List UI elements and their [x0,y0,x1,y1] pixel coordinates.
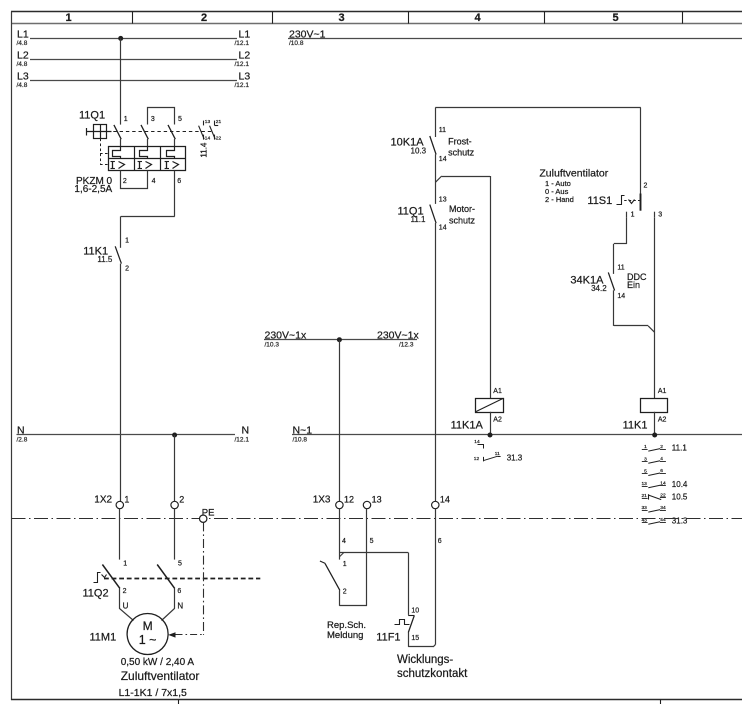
svg-text:2 - Hand: 2 - Hand [545,195,574,204]
breaker 11Q1 trip linkage dashed vertical [100,139,102,166]
wire 11K1 A2 down to N~1 [654,412,656,435]
breaker 11Q1 bridge pins 3-5 top [148,108,175,125]
svg-text:5: 5 [178,561,182,568]
relay 34K1A NO contact blade [608,272,614,290]
net L1 wire [30,38,237,40]
terminal 1X2:2 [171,501,178,508]
wire top link horizontal [435,107,641,109]
svg-text:34: 34 [660,505,666,511]
svg-text:10.3: 10.3 [411,147,427,156]
net 230V~1 wire [288,38,742,40]
net L2 wire [30,59,237,61]
svg-text:4: 4 [474,12,481,24]
svg-text:L1: L1 [17,28,29,40]
svg-text:10.4: 10.4 [672,480,688,489]
wire merge bevel to terminal 14 column [433,645,435,647]
wire terminal 1X3:13 down [366,509,368,606]
svg-text:14: 14 [439,156,447,163]
breaker 11Q1 pole 2 blade [141,125,148,139]
svg-text:1: 1 [631,212,635,219]
wire 34K1A pin 14 down [613,290,615,326]
PE dash-dot horizontal to motor frame [176,634,204,636]
svg-text:L3: L3 [17,71,29,83]
selector 11S1 operator chevron [629,200,635,204]
svg-text:11F1: 11F1 [376,631,400,643]
svg-text:11.1: 11.1 [672,444,688,453]
svg-text:2: 2 [123,588,127,595]
svg-text:22: 22 [216,135,222,141]
wire down to 11F1 pin 10 [408,553,410,615]
svg-text:A2: A2 [658,417,667,424]
svg-text:/12.1: /12.1 [235,61,250,68]
thermal contact 11F1 seat tick [408,615,414,617]
wire 11S1 pin 2 lead down [640,108,642,194]
breaker 11Q1 auxiliary contact 13-14 [203,121,205,126]
terminal PE [200,515,207,522]
svg-text:5: 5 [612,12,618,24]
column tick 1 [132,12,134,24]
svg-text:11Q1: 11Q1 [79,109,105,121]
wire 10K1A pin 14 down with branch [435,154,437,204]
svg-text:6: 6 [438,538,442,545]
breaker 11Q1 bridge pins 2-4 bottom [121,171,148,189]
svg-text:2: 2 [179,494,184,504]
wire horizontal merge toward pin3 branch [614,325,648,327]
svg-text:1: 1 [125,237,129,244]
thermal overload element pole 3 [167,147,175,159]
wire Rep.Sch. pin 2 down [339,590,341,605]
svg-text:11M1: 11M1 [90,631,117,643]
wire 230V~1x down to terminal 1X3:12 [339,340,341,502]
selector 11S1 pin 3 tick [654,212,656,218]
breaker 11Q1 actuator box [94,125,107,139]
page border header bottom line [11,23,742,25]
svg-text:230V~1x: 230V~1x [265,329,307,341]
relay coil 11K1A [476,399,504,413]
terminal 1X2:1 [116,501,123,508]
wire coil column down to 11K1A A1 [490,176,492,398]
svg-text:10.5: 10.5 [672,492,688,501]
breaker 11Q1 trip linkage dashed stub lower [100,164,109,166]
equipotential dash-dot line [12,518,742,520]
svg-text:1: 1 [343,561,347,568]
breaker 11Q1 actuator handle tick [86,128,88,136]
bottom title-block tick left [178,700,180,704]
switch 11Q2 operator chevron [102,575,107,578]
svg-text:N: N [17,424,25,436]
svg-text:4: 4 [152,178,156,185]
breaker 11Q1 trip linkage dashed stub upper [100,153,109,155]
svg-text:230V~1: 230V~1 [289,28,326,40]
svg-text:/10.3: /10.3 [265,341,280,348]
svg-text:10: 10 [411,607,419,614]
magnetic trip I> symbol pole 2 [139,162,141,169]
svg-text:1,6-2,5A: 1,6-2,5A [74,184,112,195]
breaker 11Q1 actuator cross vertical [100,125,102,139]
wire down to 11K1 contact pin 1 [120,216,122,247]
wire N down to terminal 1X2:2 [174,435,176,501]
motor 11M1 circle [127,614,168,655]
svg-text:15: 15 [411,635,419,642]
svg-text:M: M [143,619,153,633]
wire L1 down to 11Q1 pin 1 [120,38,122,124]
svg-text:2: 2 [125,266,129,273]
svg-text:L1-1K1 / 7x1,5: L1-1K1 / 7x1,5 [119,687,187,699]
svg-text:Meldung: Meldung [327,630,363,641]
svg-text:/12.1: /12.1 [235,82,250,89]
svg-text:12: 12 [474,456,480,462]
contactor coil 11K1 [641,399,668,413]
PE arrow into motor [168,632,175,637]
svg-text:Frost-: Frost- [448,136,472,146]
svg-text:/4.8: /4.8 [17,61,28,68]
svg-text:U: U [123,601,129,610]
svg-text:3: 3 [658,212,662,219]
svg-text:4: 4 [342,538,346,545]
thermal sensor symbol of 11F1 [395,620,410,625]
svg-text:11Q2: 11Q2 [83,587,109,599]
switch 11Q2 coupling dashed line [104,578,260,580]
svg-text:13: 13 [205,119,211,125]
thermal overload element pole 1 [113,147,121,159]
svg-text:/10.8: /10.8 [289,40,304,47]
svg-text:2: 2 [201,12,207,24]
svg-text:230V~1x: 230V~1x [377,329,419,341]
svg-text:L2: L2 [239,49,251,61]
column tick 2 [272,12,274,24]
svg-text:N: N [177,601,183,610]
wire 11K1A A2 down to N~1 [490,412,492,435]
selector 11S1 operator dashed link [624,200,639,202]
wire drop to 10K1A pin 11 [435,108,437,137]
wire 11Q1 aux pin 14 down to terminal 1X3:14 [435,223,437,501]
contactor 11K1 NO contact blade [115,246,121,263]
wire horizontal jog to left column [121,216,175,218]
svg-text:11: 11 [439,127,446,134]
svg-text:14: 14 [205,135,211,141]
mirror contact 11K1A changeover blade [483,457,485,462]
svg-text:14: 14 [617,293,625,300]
mirror contact 11K1A hook [478,445,484,449]
svg-text:2: 2 [343,588,347,595]
wire 11Q2 pin 2 down to motor [120,589,134,621]
net N~1 wire [292,434,742,436]
svg-text:Rep.Sch.: Rep.Sch. [327,620,366,631]
column tick 3 [408,12,410,24]
breaker 11Q1 overload block outline [109,147,186,171]
wire 11F1 pin 15 down [408,632,410,647]
wire 11S1 pin 3 down to 11K1 coil A1 [654,218,656,399]
breaker 11Q1 pole1 lower lead [120,139,122,147]
breaker 11Q1 overload block mid line [109,158,186,160]
svg-text:2: 2 [123,178,127,185]
node N junction dot [172,433,177,438]
svg-text:Motor-: Motor- [449,204,475,214]
wire terminal 1X3:14 down to 11F1 return [435,509,437,645]
breaker 11Q1 actuator cross horizontal with handle [86,131,111,133]
svg-text:L3: L3 [239,71,251,83]
svg-text:13: 13 [439,196,447,203]
svg-text:11S1: 11S1 [587,195,612,207]
svg-text:1: 1 [124,116,128,123]
svg-text:1X3: 1X3 [313,494,331,505]
breaker 11Q1 mechanical linkage dashed [107,131,213,133]
node 230V~1x junction dot [337,337,342,342]
svg-text:11K1: 11K1 [623,419,648,431]
selector 11S1 pin 1 tick [626,212,628,218]
wire terminal 1X2:2 down to 11Q2 pin 5 [174,509,176,560]
svg-text:5: 5 [370,538,374,545]
switch 11Q2 pole 1 blade [102,565,120,589]
node N~1 junction dot at 11K1 [652,433,657,438]
column tick 4 [544,12,546,24]
svg-text:/12.3: /12.3 [399,341,414,348]
svg-text:Zuluftventilator: Zuluftventilator [121,669,200,683]
switch 11Q2 manual operator glyph [94,573,101,583]
svg-text:/4.8: /4.8 [17,82,28,89]
breaker aux 11Q1 NO contact blade [430,205,436,224]
svg-text:2: 2 [644,182,648,189]
svg-text:6: 6 [177,588,181,595]
breaker 11Q1 pole2 lower lead [147,139,149,147]
svg-text:11K1A: 11K1A [451,420,484,432]
wire terminal 1X2:1 down to 11Q2 pin 1 [119,509,121,560]
svg-text:/10.8: /10.8 [293,437,308,444]
breaker 11Q1 overload block divider 1 [134,147,136,171]
wire branch horizontal to 11F1 [339,552,408,554]
breaker 11Q1 overload block divider 2 [160,147,162,171]
magnetic trip I> symbol pole 1 [112,162,114,169]
svg-text:/2.8: /2.8 [17,437,28,444]
svg-text:Zuluftventilator: Zuluftventilator [539,167,608,179]
node L1 junction dot [118,36,123,41]
terminal 1X3:12 [336,501,343,508]
page border left line [11,12,13,701]
wire bottom horizontal to terminal 14 column [408,646,433,648]
svg-text:14: 14 [439,224,447,231]
PE dash-dot drop to motor [203,522,205,635]
wire 11S1 pin 1 down [626,218,628,244]
thermal contact 11F1 blade [408,616,414,633]
breaker 11Q1 pole3 lower lead [174,139,176,147]
svg-text:N: N [242,424,250,436]
svg-text:11: 11 [617,265,624,272]
svg-text:11.4: 11.4 [200,142,209,158]
svg-text:L1: L1 [239,28,251,40]
svg-text:L2: L2 [17,49,29,61]
wire branch bevel to 11K1A coil [435,176,441,182]
svg-text:1: 1 [65,12,71,24]
svg-text:schutzkontakt: schutzkontakt [397,668,468,680]
svg-text:/12.1: /12.1 [235,437,250,444]
svg-text:Ein: Ein [627,280,640,290]
switch Rep.Sch. actuator tick [320,561,325,563]
svg-text:1 ~: 1 ~ [139,633,157,647]
net L3 wire [30,80,237,82]
wire 11Q2 pin 6 down to motor [162,589,175,621]
svg-text:13: 13 [641,481,647,487]
svg-text:1: 1 [123,561,127,568]
svg-text:/4.8: /4.8 [17,40,28,47]
svg-text:12: 12 [344,494,354,504]
net N wire [17,434,236,436]
svg-text:/12.1: /12.1 [235,40,250,47]
switch 11Q2 pole 2 blade [157,565,175,589]
svg-text:14: 14 [440,494,450,504]
svg-text:0,50 kW / 2,40 A: 0,50 kW / 2,40 A [121,657,195,668]
wire bottom link to terminal 13 wire [339,605,367,607]
svg-text:11.5: 11.5 [97,255,113,264]
svg-text:1X2: 1X2 [94,494,112,505]
breaker 11Q1 pole 3 blade [168,125,175,139]
svg-text:schutz: schutz [448,148,475,158]
net 230V~1x wire [264,339,417,341]
svg-text:A2: A2 [493,417,502,424]
svg-text:13: 13 [372,494,382,504]
svg-text:31.3: 31.3 [507,453,523,462]
svg-text:21: 21 [216,119,222,125]
selector 11S1 blade [640,194,642,211]
terminal 1X3:14 [432,501,439,508]
svg-text:34.2: 34.2 [591,284,607,293]
relay 10K1A NO contact blade [430,136,436,155]
switch Rep.Sch. Meldung blade [325,563,340,590]
svg-text:2: 2 [660,444,663,450]
svg-text:3: 3 [338,12,344,24]
bottom title-block tick right [660,700,662,704]
svg-text:schutz: schutz [449,215,476,225]
wire jog left to 34K1A column [614,243,627,245]
page border top outer line [11,11,742,13]
breaker 11Q1 auxiliary contact 21-22 NC [214,121,216,126]
page border bottom line [11,699,742,701]
svg-text:5: 5 [178,116,182,123]
wire 11Q1 pin 6 down [174,171,176,217]
magnetic trip I> symbol pole 3 [166,162,168,169]
wire merge bevel [648,326,655,333]
svg-text:PE: PE [202,507,215,518]
breaker 11Q1 pole 1 blade [114,125,121,139]
svg-text:A1: A1 [493,388,502,395]
wire terminal 1X3:12 down [339,509,341,560]
node N~1 junction dot at 11K1A [488,433,493,438]
thermal overload element pole 2 [140,147,148,159]
svg-text:A1: A1 [658,388,667,395]
svg-text:N~1: N~1 [293,424,313,436]
svg-text:11.1: 11.1 [411,215,427,224]
wire branch horizontal to coil column [442,176,490,178]
svg-text:1: 1 [124,494,129,504]
svg-text:3: 3 [151,116,155,123]
selector 11S1 manual operator glyph [617,196,625,205]
wire down to 34K1A pin 11 [613,244,615,274]
svg-text:6: 6 [177,178,181,185]
wire 11K1 pin 2 down to terminal 1X2:1 [120,264,122,502]
column tick 5 [682,12,684,24]
svg-text:Wicklungs-: Wicklungs- [397,654,453,666]
wire branch bevel at 1X3:12 column [339,553,343,557]
terminal 1X3:13 [363,501,370,508]
